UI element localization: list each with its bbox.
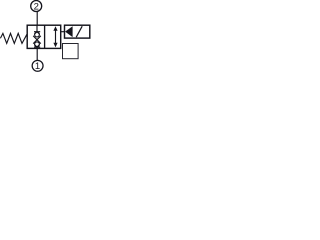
port 2 circle <box>31 1 42 12</box>
wire: bottom stub of left box <box>36 47 38 48</box>
wire: top stub into left box <box>36 25 38 32</box>
flow arrow shaft <box>55 30 57 45</box>
wire: solenoid connector <box>61 31 65 33</box>
ball lower <box>35 42 40 47</box>
valve body <box>27 25 61 48</box>
seat bar upper <box>34 31 40 33</box>
solenoid box U1 <box>65 25 90 38</box>
ball upper <box>35 32 40 37</box>
solenoid slash <box>76 26 82 37</box>
seat bar lower <box>34 46 40 48</box>
annotation frame <box>63 44 79 59</box>
wire: port 2 line <box>36 12 38 26</box>
solenoid triangle <box>65 26 73 37</box>
crossed seat X <box>33 36 41 44</box>
svg-text:1: 1 <box>35 61 40 72</box>
spring <box>0 33 27 43</box>
seat V lower <box>34 45 39 47</box>
seat V upper <box>34 32 39 34</box>
position divider <box>44 25 46 48</box>
wire: port 1 line <box>36 48 38 60</box>
svg-text:2: 2 <box>34 1 39 12</box>
port 1 circle <box>32 60 43 71</box>
flow arrowhead down <box>53 43 57 48</box>
flow arrowhead up <box>53 26 57 31</box>
